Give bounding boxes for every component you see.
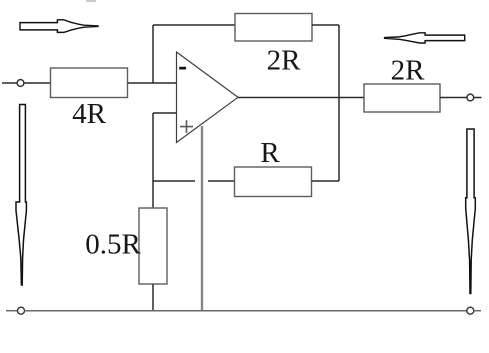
svg-text:2R: 2R <box>267 45 302 77</box>
resistor 4R <box>51 68 128 130</box>
terminal T4 (bottom right) <box>467 307 474 314</box>
arrow A1 (input current, pointing right) <box>20 20 98 33</box>
arrow A4 (right voltage arrow, pointing down) <box>466 129 476 294</box>
terminal T3 (bottom left) <box>18 307 25 314</box>
resistor R <box>235 137 312 197</box>
terminal T2 (right output) <box>467 94 474 101</box>
wire R right to node N2 vertical <box>312 180 340 182</box>
faint scan smudge top edge <box>86 0 96 2</box>
svg-text:2R: 2R <box>391 55 426 87</box>
wire R feedback left segment <box>153 180 195 182</box>
wire terminal T1 to R(4R) <box>24 82 51 84</box>
arrow A2 (output current, pointing left) <box>385 33 465 43</box>
wire vertical output node N2 <box>338 25 340 181</box>
svg-text:0.5R: 0.5R <box>85 229 141 261</box>
wire gray vertical (ground reference through crossing) <box>201 126 203 310</box>
wire input left stub <box>2 82 17 84</box>
wire top horizontal to 2R feedback <box>153 24 235 26</box>
wire op-amp non-inverting input <box>153 112 177 114</box>
wire 0.5R to bottom rail <box>152 284 154 310</box>
resistor 2R (top feedback) <box>235 14 312 77</box>
op-amp U1 <box>177 52 239 143</box>
resistor 0.5R <box>85 208 167 284</box>
wire 2R right to terminal T2 <box>440 97 467 99</box>
wire vertical node N3 from + input down to 0.5R <box>152 113 154 208</box>
wire op-amp output <box>238 97 364 99</box>
wire 2R top to node vertical <box>312 24 339 26</box>
wire R feedback left segment 2 (after crossing) <box>208 180 235 182</box>
wire bottom rail left stub <box>6 310 18 312</box>
wire bottom rail right stub <box>474 310 481 312</box>
arrow A3 (left voltage arrow, pointing down) <box>16 105 26 286</box>
wire bottom rail <box>25 310 467 312</box>
terminal T1 (left input) <box>17 80 24 87</box>
svg-text:R: R <box>260 137 280 169</box>
resistor 2R (output series) <box>364 55 440 113</box>
wire R(4R) to op-amp inverting input, node N1 at x=153 <box>128 82 177 84</box>
svg-text:4R: 4R <box>72 98 107 130</box>
wire output right stub <box>474 97 482 99</box>
wire feedback vertical from top to node N1 <box>152 25 154 83</box>
